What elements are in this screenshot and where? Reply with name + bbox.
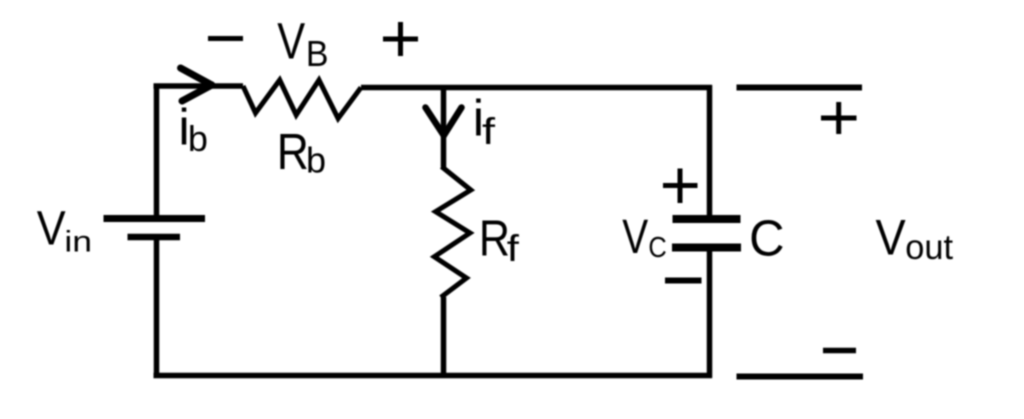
label if [473, 90, 496, 153]
svg-text:f: f [507, 228, 520, 269]
resistor Rb [243, 80, 361, 119]
polarity minus for VC [665, 278, 702, 284]
svg-text:in: in [64, 226, 92, 259]
svg-text:out: out [905, 228, 953, 267]
wire: bottom horizontal segment [154, 373, 713, 379]
wire: right vertical segment (capacitor - to bottom wire) [707, 250, 713, 378]
svg-text:C: C [648, 232, 666, 264]
battery source Vin: long plate [104, 215, 206, 222]
label Rf [479, 209, 520, 269]
wire: right vertical segment (top wire to capacitor +) [707, 85, 713, 216]
svg-text:V: V [277, 12, 305, 69]
current arrow ib (arrowhead pointing right) [181, 68, 212, 101]
wire: left vertical segment (top node to battery +) [154, 84, 160, 217]
label Vout [876, 209, 954, 267]
output terminal: bottom stub [737, 374, 864, 380]
polarity minus for Vout [823, 348, 856, 354]
polarity plus for VB [383, 22, 418, 56]
label Vin [37, 202, 92, 258]
svg-text:R: R [479, 209, 510, 266]
label VC [622, 211, 667, 264]
svg-text:V: V [622, 211, 648, 264]
polarity plus for VC [663, 169, 698, 204]
svg-text:f: f [482, 111, 496, 152]
wire: top-left horizontal segment (node A to resistor Rb) [154, 83, 244, 89]
wire: middle vertical segment (node B down to Rf) [441, 88, 447, 168]
label VB [277, 12, 328, 74]
svg-text:R: R [277, 123, 309, 180]
svg-text:b: b [306, 139, 326, 180]
resistor Rf [434, 167, 471, 298]
wire: left vertical segment (battery - to bottom wire) [154, 239, 160, 378]
svg-text:C: C [749, 210, 784, 267]
current arrow if (arrowhead pointing down) [426, 108, 462, 136]
label Rb [277, 123, 326, 180]
battery source Vin: short plate [128, 234, 181, 241]
svg-text:V: V [37, 202, 66, 255]
output terminal: top stub [737, 85, 863, 91]
polarity plus for Vout [821, 102, 857, 134]
svg-text:V: V [876, 209, 907, 265]
label ib [178, 98, 208, 159]
wire: top horizontal segment (Rb to node B) [361, 85, 712, 91]
capacitor C: top plate [673, 215, 741, 223]
capacitor C: bottom plate [672, 244, 741, 252]
wire: middle vertical segment (Rf to bottom wire) [441, 297, 447, 376]
svg-text:B: B [306, 33, 329, 74]
svg-text:b: b [188, 118, 208, 159]
polarity minus for VB [208, 36, 243, 41]
